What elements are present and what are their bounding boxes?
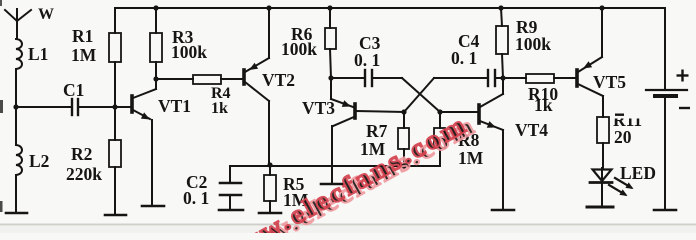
ground VT3	[321, 183, 343, 186]
svg-text:R1: R1	[72, 26, 93, 46]
wire R9 top	[501, 8, 502, 26]
wire cross diagonal C4 to VT3 base	[404, 78, 434, 112]
node R1 R2 base	[112, 104, 117, 109]
wire R7 top	[403, 112, 405, 128]
wire C1 to VT1 base	[80, 106, 131, 108]
wire VT4 collector up	[502, 78, 504, 94]
scan fade artifact over R11 label top	[611, 104, 651, 119]
svg-text:LED: LED	[620, 163, 656, 183]
ground L2	[6, 212, 27, 215]
wire battery top	[664, 8, 666, 89]
svg-text:0. 1: 0. 1	[183, 188, 209, 208]
svg-text:100k: 100k	[171, 42, 207, 62]
label R11 artifact dash	[615, 114, 624, 116]
edge artifact left lower	[0, 201, 3, 212]
wire L2 to ground	[15, 175, 17, 213]
edge artifact left middle	[0, 100, 3, 113]
wire R1 bottom	[114, 62, 116, 107]
resistor R11	[597, 117, 609, 143]
wire R2 top	[114, 107, 116, 140]
arrow VT2 emitter	[249, 63, 258, 70]
svg-text:R7: R7	[366, 121, 388, 141]
svg-text:VT4: VT4	[515, 120, 548, 140]
wire VT4 emitter down	[502, 130, 504, 210]
wire R7 bottom	[403, 149, 405, 166]
wire R4 to VT2 base	[221, 78, 243, 80]
transistor arrows	[141, 61, 634, 196]
wire R9 bottom	[502, 54, 503, 78]
resistor R3	[150, 33, 162, 62]
resistor R4	[193, 75, 221, 84]
ground LED	[587, 206, 613, 209]
ground R2	[105, 214, 126, 217]
ground R5	[259, 212, 281, 215]
svg-text:C1: C1	[63, 80, 84, 100]
wire C4 to node D	[496, 77, 503, 79]
svg-text:L2: L2	[29, 151, 49, 171]
wire LED to ground	[601, 168, 603, 207]
node antenna L2	[13, 104, 18, 109]
resistor R1	[109, 33, 121, 62]
wire R8 bottom	[439, 148, 441, 166]
svg-text:1M: 1M	[458, 148, 484, 168]
bottom scan line	[0, 224, 696, 226]
wire R5 to ground	[269, 201, 271, 213]
node top rail VT2	[266, 5, 271, 10]
wire VT3 base right	[356, 111, 404, 112]
ground battery	[654, 209, 676, 212]
svg-text:VT2: VT2	[262, 70, 295, 90]
node VT1 collector	[153, 76, 158, 81]
wire C3 to cross	[373, 77, 402, 79]
label battery minus	[679, 107, 690, 109]
wire R6 bottom	[330, 49, 331, 78]
resistor R7	[398, 128, 409, 149]
watermark www.elecfans.com	[212, 109, 482, 240]
capacitor C3	[365, 70, 372, 86]
svg-text:1M: 1M	[71, 45, 97, 65]
transistor VT2	[244, 58, 269, 101]
node R7 bias line	[401, 163, 406, 168]
transistor VT1	[132, 89, 156, 119]
wire R3 bottom	[155, 62, 157, 79]
antenna	[5, 9, 31, 39]
node R8 base VT4	[437, 109, 442, 114]
wire C4 line left	[434, 77, 487, 79]
arrow VT4 emitter	[487, 121, 496, 128]
wire node D to R10	[503, 77, 526, 79]
wire VT4 base left	[440, 111, 478, 113]
wire VT2 bottom down	[268, 101, 270, 165]
svg-text:100k: 100k	[515, 34, 551, 54]
wire battery bottom	[664, 98, 666, 209]
wire C3 left	[331, 77, 364, 79]
node R9 C4 VT4	[500, 75, 505, 80]
svg-text:VT3: VT3	[302, 98, 335, 118]
wire R3 top	[155, 8, 157, 33]
node top rail R6	[327, 5, 332, 10]
wire VT5 collector to rail	[601, 8, 603, 57]
capacitor C1	[72, 99, 78, 115]
wire VT2 top to rail	[268, 8, 270, 58]
wire cross diagonal C3 to VT4 base	[402, 78, 440, 112]
ground C2	[219, 209, 243, 212]
wire R6 top	[329, 8, 331, 28]
ground VT4	[492, 209, 514, 212]
resistor R5	[264, 175, 276, 201]
arrow VT1 emitter	[141, 112, 150, 119]
node top rail R9	[498, 5, 503, 10]
resistor R8	[434, 128, 445, 148]
svg-text:R2: R2	[71, 144, 92, 164]
node VT2 collector R5	[267, 162, 272, 167]
wire node B to R4	[156, 78, 193, 80]
battery B1	[646, 90, 687, 96]
node R6 C3 VT3	[328, 75, 333, 80]
svg-text:0. 1: 0. 1	[354, 50, 380, 70]
edge artifact top-left	[0, 0, 2, 6]
wire node A down to L2	[15, 107, 17, 145]
svg-text:220k: 220k	[66, 164, 102, 184]
arrow LED light 1	[625, 182, 633, 189]
resistor R10	[526, 74, 554, 83]
wire R10 to VT5 base	[554, 77, 576, 79]
wire VT3 emitter down	[331, 126, 333, 184]
arrow LED light 2	[619, 189, 627, 196]
wire R11 to LED	[602, 143, 604, 168]
wire R2 to ground	[114, 167, 116, 215]
svg-text:20: 20	[614, 127, 632, 147]
transistor VT3	[331, 78, 355, 126]
node R7 base VT3	[401, 109, 406, 114]
svg-text:VT5: VT5	[593, 72, 626, 92]
capacitor C4	[488, 70, 495, 86]
inductor L1	[16, 39, 22, 69]
transistor VT4	[479, 94, 503, 130]
wire R8 top	[439, 112, 441, 128]
svg-text:L1: L1	[28, 44, 48, 64]
svg-text:1k: 1k	[534, 95, 553, 115]
wire C1 left	[16, 106, 70, 108]
node top rail VT5	[599, 5, 604, 10]
svg-text:0. 1: 0. 1	[451, 48, 477, 68]
wire VT1 emitter down	[151, 120, 153, 205]
wire bias line C2 to R8	[230, 165, 440, 167]
wire VT1 collector up	[155, 79, 157, 89]
resistor R9	[496, 26, 508, 54]
arrow VT5 emitter lead	[583, 61, 592, 68]
transistor VT5	[577, 57, 603, 96]
LED D1	[590, 170, 631, 195]
node top rail R3	[153, 5, 158, 10]
wire top rail	[115, 7, 665, 9]
wire L1 to node A	[15, 69, 17, 107]
arrow VT3 emitter lead	[342, 100, 351, 107]
svg-text:VT1: VT1	[158, 96, 191, 116]
svg-text:W: W	[38, 6, 54, 23]
resistor R6	[325, 28, 336, 49]
capacitor C2	[220, 166, 241, 209]
svg-text:1k: 1k	[211, 100, 228, 117]
label battery plus	[677, 70, 691, 109]
wire VT5 emitter to R11	[602, 96, 604, 117]
svg-text:100k: 100k	[281, 39, 317, 59]
resistor R2	[109, 140, 121, 167]
wire R1 top	[114, 8, 116, 33]
ground VT1	[142, 205, 164, 208]
inductor L2	[16, 145, 22, 175]
wire R5 top	[269, 166, 271, 175]
